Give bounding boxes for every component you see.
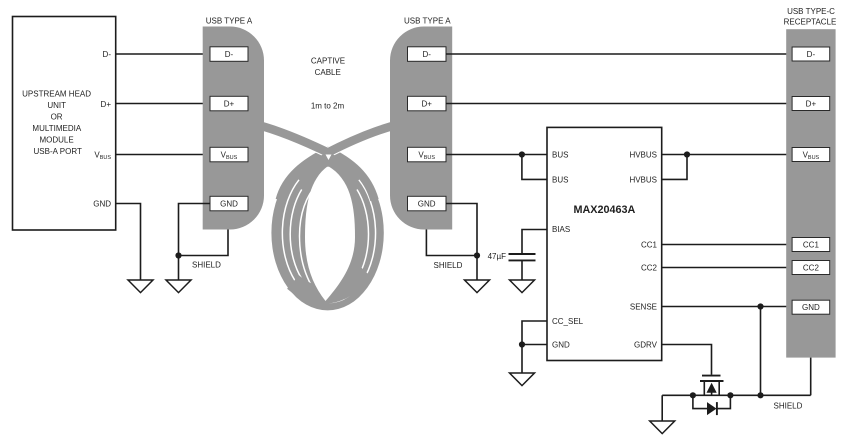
ground shield switch — [650, 421, 675, 434]
svg-text:D+: D+ — [101, 100, 112, 109]
svg-text:D-: D- — [225, 50, 234, 59]
type-C pin CC2 — [792, 261, 830, 275]
connector 1 pin GND — [210, 196, 248, 211]
captive cable coil bottom merge — [293, 272, 366, 295]
svg-text:47µF: 47µF — [488, 252, 507, 261]
wire branch to BUS2 — [522, 155, 547, 180]
captive cable lead from connector 1 — [250, 123, 330, 154]
wire connector 2 shell to shield — [426, 230, 477, 256]
ground shield 2 — [465, 280, 490, 293]
USB type A connector 2 body — [390, 27, 452, 230]
svg-text:USB TYPE-CRECEPTACLE: USB TYPE-CRECEPTACLE — [784, 7, 837, 27]
svg-text:CC_SEL: CC_SEL — [552, 317, 584, 326]
captive cable coil separator 1 — [282, 180, 375, 303]
wire connector 2 GND to shield — [446, 204, 477, 256]
junction rail sense — [757, 392, 763, 398]
type-C pin D+ — [792, 97, 830, 111]
svg-text:BUS: BUS — [552, 150, 568, 159]
junction BUS branch — [519, 151, 525, 157]
svg-text:CC1: CC1 — [803, 240, 820, 249]
svg-text:GND: GND — [220, 199, 238, 208]
captive cable coil separator 3 — [300, 183, 319, 290]
ground shield 1 — [166, 280, 191, 293]
junction rail right — [727, 392, 733, 398]
wire sense to rail — [760, 307, 762, 396]
svg-text:GDRV: GDRV — [634, 340, 658, 349]
svg-text:GND: GND — [552, 340, 570, 349]
wire type-C shield — [810, 358, 812, 396]
captive cable tail into coil left — [280, 150, 330, 200]
ground head unit — [128, 280, 153, 293]
wire capacitor to ground — [521, 261, 523, 280]
wire chip GND — [522, 345, 547, 374]
svg-text:D-: D- — [807, 50, 816, 59]
type-C pin GND — [792, 300, 830, 314]
wire BIAS — [522, 230, 547, 254]
svg-text:D-: D- — [422, 50, 431, 59]
svg-text:HVBUS: HVBUS — [629, 175, 657, 184]
wire VBUS to BUS — [446, 154, 547, 156]
connector 2 pin GND — [408, 196, 447, 211]
junction shield 1 — [175, 252, 181, 258]
type-C pin VBUS — [792, 148, 830, 162]
svg-text:USB TYPE A: USB TYPE A — [206, 16, 253, 25]
wire connector 1 shell to shield — [179, 230, 229, 256]
capacitor C1 47uF — [509, 253, 536, 255]
junction CC_SEL/GND — [519, 341, 525, 347]
wire rail to ground — [661, 395, 663, 421]
wire shield rail — [662, 394, 811, 396]
type-C pin D- — [792, 47, 830, 61]
captive cable lead from connector 2 — [326, 123, 404, 154]
svg-text:GND: GND — [418, 199, 436, 208]
svg-text:SHIELD: SHIELD — [774, 401, 803, 410]
ground chip — [510, 373, 535, 386]
svg-text:GND: GND — [93, 199, 111, 208]
connector 1 pin D+ — [210, 96, 248, 111]
wire SENSE to type-C GND — [662, 306, 792, 308]
svg-text:BUS: BUS — [552, 175, 568, 184]
wire CC_SEL — [522, 321, 547, 345]
svg-text:USB TYPE A: USB TYPE A — [404, 16, 451, 25]
wire head D+ to USB-A#1 — [116, 103, 210, 105]
wire HVBUS1 to type-C VBUS — [662, 154, 792, 156]
wire D+ connector 2 to type-C — [446, 103, 792, 105]
junction SENSE — [757, 303, 763, 309]
captive cable coil separator 2 — [290, 190, 368, 298]
svg-text:CC2: CC2 — [803, 263, 820, 272]
wire GDRV to gate — [662, 345, 712, 375]
svg-text:HVBUS: HVBUS — [629, 150, 657, 159]
type-C pin CC1 — [792, 238, 830, 252]
captive cable tail into coil right — [326, 150, 375, 200]
svg-text:D-: D- — [103, 50, 112, 59]
connector 1 pin VBUS — [210, 147, 248, 162]
connector 1 pin D- — [210, 47, 248, 62]
ground capacitor — [510, 280, 535, 293]
junction HVBUS branch — [684, 151, 690, 157]
connector 2 pin VBUS — [408, 147, 447, 162]
svg-text:CC2: CC2 — [641, 263, 658, 272]
diode D1 body — [693, 395, 707, 408]
wire HVBUS2 branch — [662, 155, 687, 180]
wire shield to ground — [178, 256, 180, 281]
captive cable coil inner hole — [305, 166, 355, 301]
wire CC2 — [662, 267, 792, 269]
svg-text:D+: D+ — [806, 99, 817, 108]
svg-text:D+: D+ — [224, 99, 235, 108]
svg-text:CC1: CC1 — [641, 240, 658, 249]
wire connector 1 GND to shield — [179, 204, 211, 256]
wire head GND — [116, 204, 141, 281]
captive cable coil body — [271, 155, 383, 310]
upstream head unit box — [13, 17, 116, 231]
USB type A connector 1 body — [203, 27, 264, 230]
USB type-C receptacle body — [786, 29, 835, 357]
wire shield 2 to ground — [476, 256, 478, 281]
svg-text:D+: D+ — [421, 99, 432, 108]
svg-text:BIAS: BIAS — [552, 225, 570, 234]
transistor Q1 shield switch — [702, 375, 721, 377]
op-amp U1 MAX20463A box — [547, 127, 662, 360]
captive cable crossing knot — [316, 151, 340, 167]
svg-text:1m to 2m: 1m to 2m — [311, 102, 345, 111]
connector 2 pin D- — [408, 47, 447, 62]
junction shield 2 — [474, 252, 480, 258]
svg-text:MAX20463A: MAX20463A — [573, 204, 635, 216]
wire D- connector 2 to type-C — [446, 53, 792, 55]
svg-text:SHIELD: SHIELD — [434, 261, 463, 270]
connector 2 pin D+ — [408, 96, 447, 111]
wire head VBUS to USB-A#1 — [116, 154, 210, 156]
junction rail left — [690, 392, 696, 398]
svg-text:GND: GND — [802, 303, 820, 312]
wire head D- to USB-A#1 — [116, 53, 210, 55]
svg-text:SENSE: SENSE — [630, 302, 657, 311]
svg-text:SHIELD: SHIELD — [192, 260, 221, 269]
wire CC1 — [662, 244, 792, 246]
